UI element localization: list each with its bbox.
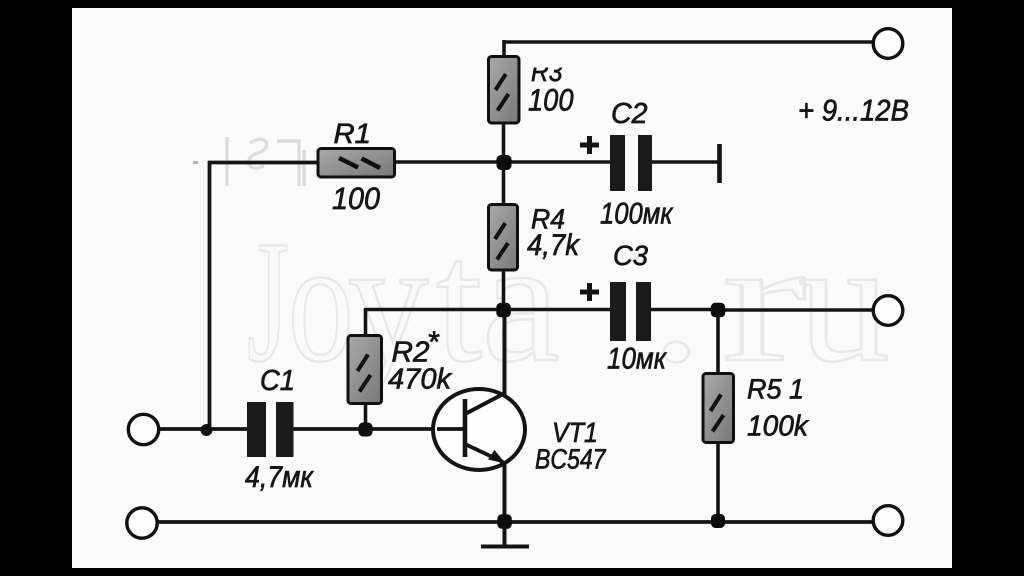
svg-text:4,7мк: 4,7мк bbox=[245, 461, 315, 494]
terminal: input bbox=[128, 414, 158, 444]
node: R5 bottom junction bbox=[711, 514, 725, 528]
svg-text:BC547: BC547 bbox=[535, 444, 607, 475]
svg-text:+ 9...12В: + 9...12В bbox=[798, 95, 909, 128]
capacitor C3 bbox=[610, 282, 651, 341]
wire: C3 to R5 node bbox=[650, 308, 718, 312]
svg-text:R1: R1 bbox=[334, 118, 372, 149]
wire: C1 to base bbox=[292, 427, 465, 431]
terminal: bottom right bbox=[873, 506, 903, 536]
svg-text:100мк: 100мк bbox=[600, 198, 674, 231]
faint watermark fragments top-left bbox=[227, 137, 304, 186]
wire: input terminal to C1 bbox=[158, 427, 248, 431]
wire: C2 to termination bar bbox=[651, 160, 719, 164]
wire: emitter vertical bbox=[503, 460, 507, 522]
wire: bottom rail bbox=[157, 520, 873, 524]
wire: R5 node to output terminal bbox=[718, 308, 873, 312]
C3 polarity plus bbox=[580, 283, 599, 301]
wire: R5 bottom stub bbox=[716, 442, 720, 522]
ground bar bbox=[481, 545, 529, 549]
svg-text:10мк: 10мк bbox=[607, 343, 668, 376]
wire: R2 top to collector node bbox=[365, 308, 504, 312]
node: R2 bottom/base junction bbox=[359, 423, 373, 437]
svg-text:C2: C2 bbox=[611, 98, 648, 130]
transistor VT1 bbox=[433, 389, 525, 470]
svg-text:470k: 470k bbox=[388, 364, 452, 396]
wire: R5 top stub bbox=[716, 309, 720, 374]
svg-text:100: 100 bbox=[332, 181, 380, 216]
node: emitter/ground junction bbox=[497, 514, 512, 529]
wire: R4 bottom stub bbox=[502, 269, 506, 311]
resistor R2 bbox=[348, 336, 382, 404]
node: R1/R3/R4/C2 junction bbox=[497, 155, 512, 170]
svg-text:o: o bbox=[288, 204, 354, 398]
terminal: bottom left bbox=[127, 508, 157, 538]
resistor R4 bbox=[489, 205, 518, 271]
svg-text:100: 100 bbox=[528, 83, 574, 118]
label R3 (top clipped) bbox=[524, 56, 572, 87]
terminal: output bbox=[873, 296, 903, 326]
wire: ground stub bbox=[503, 522, 507, 546]
capacitor C1 bbox=[247, 402, 294, 457]
wire: R2 bottom stub bbox=[364, 403, 368, 430]
svg-text:C3: C3 bbox=[613, 240, 648, 271]
svg-text:*: * bbox=[427, 326, 440, 359]
wire: R1 right lead to C2 bbox=[395, 160, 610, 164]
wire: collector node rail to C3 bbox=[504, 308, 610, 312]
small gray tick left of R1 lead bbox=[193, 161, 198, 164]
capacitor C2 bbox=[610, 135, 652, 191]
wire: collector vertical bbox=[503, 310, 507, 396]
node: input/feedback junction bbox=[201, 424, 213, 436]
resistor R1 bbox=[318, 149, 395, 178]
svg-text:100k: 100k bbox=[747, 411, 809, 443]
node: C3/R5 junction bbox=[711, 303, 726, 318]
wire: R3 top stub bbox=[502, 40, 506, 57]
svg-text:C1: C1 bbox=[260, 365, 295, 397]
wire: feedback vertical bbox=[208, 161, 212, 430]
resistor R5 bbox=[703, 374, 734, 443]
terminal: +V supply bbox=[873, 29, 903, 59]
svg-text:r: r bbox=[722, 204, 807, 398]
C2 polarity plus bbox=[580, 136, 599, 154]
svg-text:R5 1: R5 1 bbox=[747, 374, 804, 405]
wire: R1 left lead bbox=[208, 161, 319, 165]
wire: R2 top stub bbox=[364, 308, 368, 336]
C2 termination bar bbox=[717, 144, 722, 183]
watermark joyta.ru bbox=[247, 204, 890, 398]
wire: R3 bottom to R4 top through node bbox=[502, 122, 506, 205]
wire: top rail to +V terminal bbox=[504, 40, 875, 44]
svg-text:4,7k: 4,7k bbox=[527, 229, 581, 262]
resistor R3 bbox=[489, 57, 520, 124]
node: collector junction bbox=[496, 303, 511, 318]
